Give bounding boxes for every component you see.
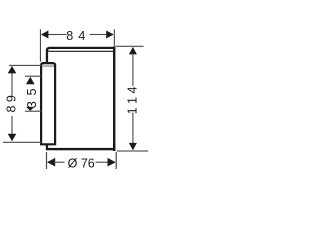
dim 35 down arrowhead [26,107,35,111]
svg-text:8 9: 8 9 [4,95,18,112]
dim 76 left extension line [46,152,47,169]
dim 89 dimension line lower shaft [11,116,12,135]
dim 84 left extension line [40,29,41,62]
dim 76 right arrowhead [108,158,116,167]
dim 84 left arrowhead [41,31,49,39]
dim 114 bottom extension line [117,150,148,151]
dim 84 right arrowhead [106,31,114,39]
dim 76 right extension line [116,152,117,169]
dim 89 dimension line upper shaft [11,73,12,97]
dim 89 top extension line [9,65,42,66]
body bottom edge [46,148,115,150]
dim 84 right extension line [114,29,115,46]
dim 35 top extension line [25,76,41,77]
dim 84 dimension line left shaft [47,34,67,35]
body top slab thick top line with rounded left cap [47,48,115,50]
dim 114 dimension line lower shaft [132,113,133,144]
dim 76 left arrowhead [47,158,55,167]
dim 89 down arrowhead [8,134,17,142]
body left edge [46,49,48,150]
dim 114 dimension line upper shaft [132,54,133,86]
dim 114 down arrowhead [129,143,137,151]
dim 76 dimension line right shaft [96,162,109,163]
dim 76 dimension line left shaft [54,162,65,163]
svg-text:Ø 76: Ø 76 [68,157,95,171]
svg-text:1 1 4: 1 1 4 [126,87,140,115]
dim 84 dimension line right shaft [90,34,108,35]
dim 114 up arrowhead [129,47,137,55]
dim 35 up arrowhead [26,77,35,85]
body right edge [113,47,115,151]
dim 35 bottom extension line [25,111,41,112]
knob gray cap band [42,65,54,67]
dim 114 top extension line [116,46,144,47]
knob body [41,63,55,144]
dim 89 bottom extension line [3,142,42,143]
svg-text:8 4: 8 4 [66,29,86,43]
body top slab thin bottom line [47,50,113,51]
svg-text:3 5: 3 5 [25,87,39,108]
dim 89 up arrowhead [8,66,17,74]
